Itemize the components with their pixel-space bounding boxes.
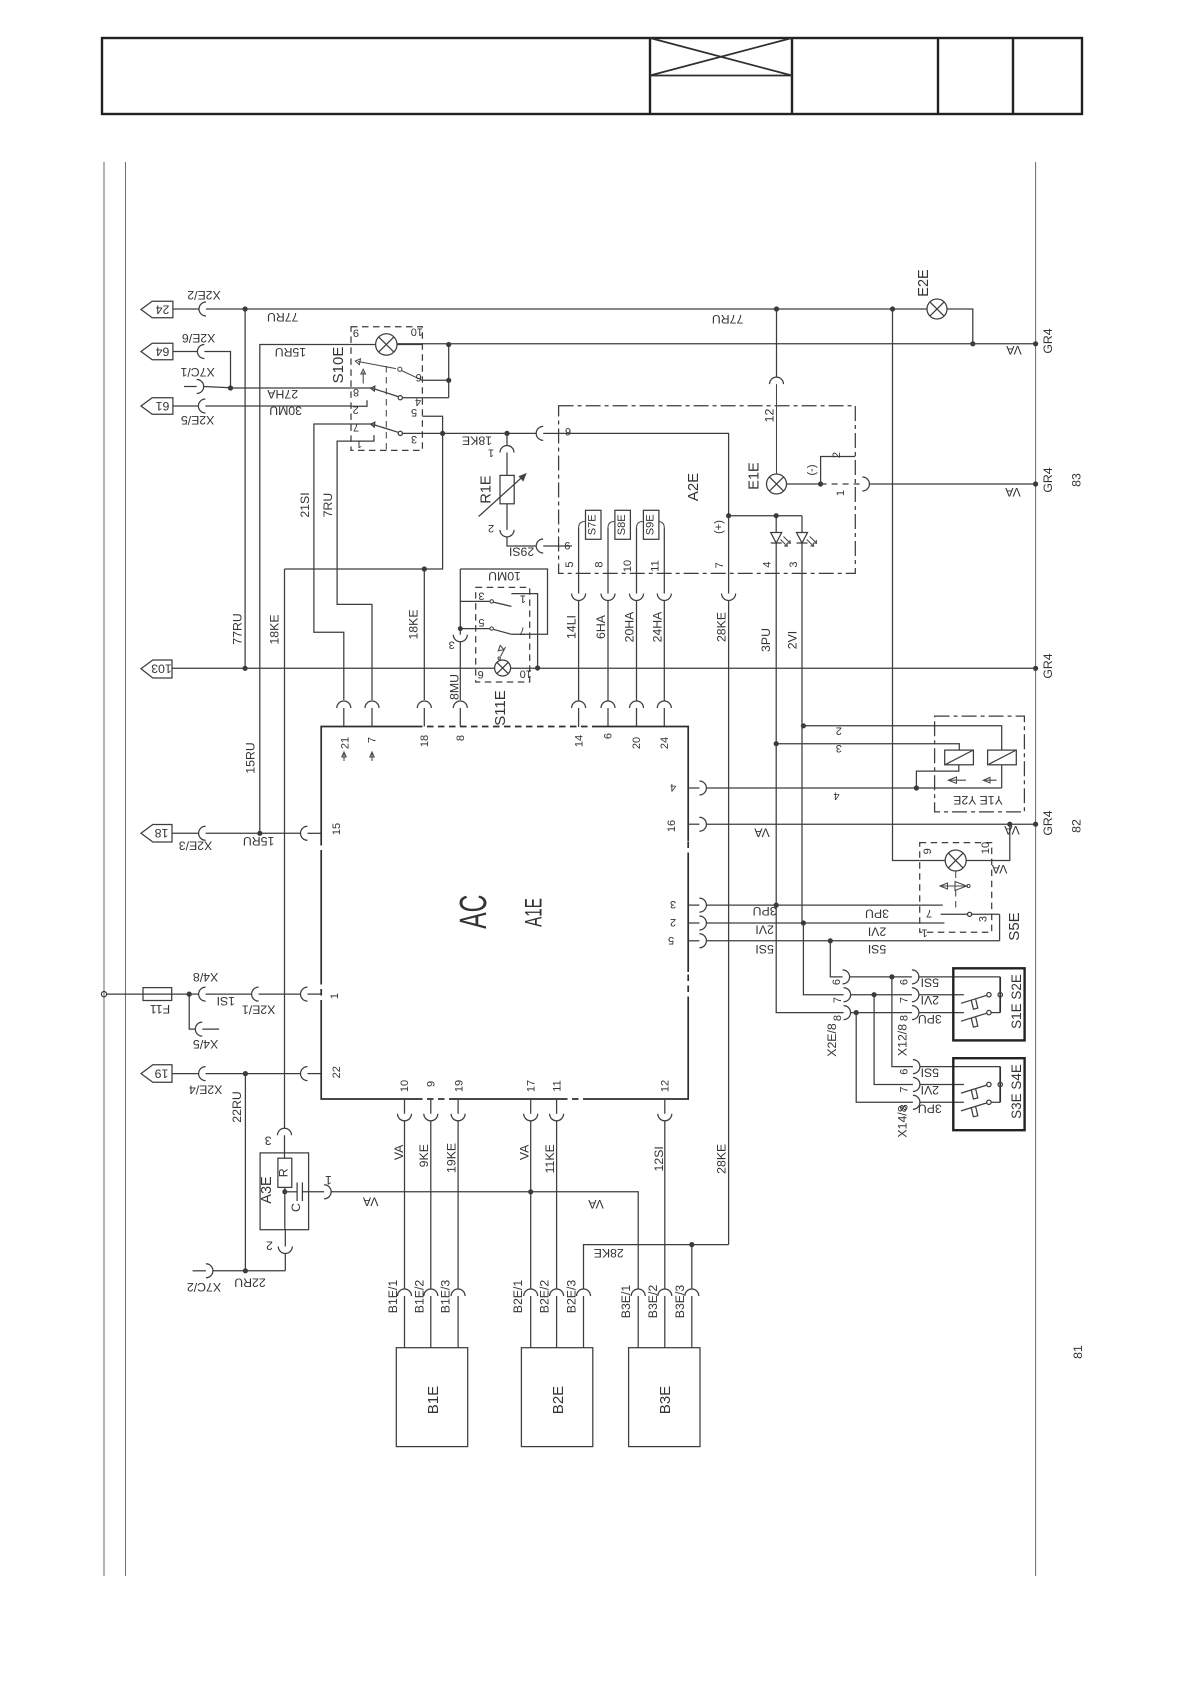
node pin3 3PU junction bbox=[774, 741, 779, 746]
node rail2 end bbox=[1033, 481, 1038, 486]
wire 22RU vertical bbox=[244, 1074, 246, 1271]
svg-text:VA: VA bbox=[991, 862, 1007, 876]
svg-text:2VI: 2VI bbox=[786, 631, 800, 649]
wire Y1E coil bottom bbox=[916, 765, 958, 788]
svg-text:17: 17 bbox=[525, 1080, 537, 1092]
wire A3E pin3 into box bbox=[284, 1135, 286, 1158]
svg-text:3PU: 3PU bbox=[918, 1101, 942, 1115]
wire E1E minus bbox=[787, 483, 821, 485]
svg-text:19: 19 bbox=[453, 1080, 465, 1092]
svg-text:18KE: 18KE bbox=[407, 609, 421, 639]
svg-text:10: 10 bbox=[399, 1080, 411, 1092]
flag 18 bbox=[141, 825, 172, 843]
svg-text:6: 6 bbox=[899, 979, 911, 985]
S10E contact pin8-pin4 bbox=[351, 386, 449, 400]
node rail3 junction bbox=[243, 666, 248, 671]
svg-text:S9E: S9E bbox=[644, 514, 656, 535]
svg-text:B2E/3: B2E/3 bbox=[565, 1280, 579, 1314]
svg-text:GR4: GR4 bbox=[1041, 467, 1055, 492]
svg-text:S1E S2E: S1E S2E bbox=[1009, 974, 1024, 1029]
LED 2 bbox=[797, 516, 817, 574]
wire long vertical from 77RU to S5E bbox=[893, 309, 920, 861]
svg-text:1: 1 bbox=[520, 593, 526, 605]
wire LED feed bbox=[729, 515, 802, 517]
wire A2E pin4 3PU vertical bbox=[776, 573, 843, 1012]
wire rail4 GR4 bbox=[706, 823, 1035, 825]
wire S3E 2VI bbox=[874, 995, 913, 1085]
connector B1E/3 bbox=[451, 1289, 465, 1348]
svg-text:28KE: 28KE bbox=[715, 612, 729, 642]
resistor R1E with pin1 connector bbox=[479, 433, 537, 546]
svg-text:81: 81 bbox=[1071, 1345, 1085, 1359]
thermal switch S7E bbox=[579, 510, 601, 573]
S10E pin6 wire bbox=[422, 379, 448, 381]
svg-text:3: 3 bbox=[670, 898, 676, 910]
svg-text:VA: VA bbox=[753, 826, 769, 840]
svg-text:19KE: 19KE bbox=[445, 1143, 459, 1173]
title block frame bbox=[102, 38, 1082, 114]
node S10E right rail verticals bbox=[448, 345, 450, 398]
svg-text:B2E: B2E bbox=[550, 1386, 567, 1414]
svg-text:3: 3 bbox=[449, 639, 455, 651]
S10E pin2 stub bbox=[351, 400, 367, 406]
connector A1E pin1 bbox=[301, 987, 308, 1001]
wire 18KE left vertical bbox=[284, 569, 286, 1128]
S11E contact blade lower bbox=[490, 627, 511, 634]
svg-text:3: 3 bbox=[411, 433, 417, 445]
node 77RU at E1E bbox=[774, 306, 779, 311]
wire 1SI bbox=[189, 993, 198, 995]
svg-text:B1E/2: B1E/2 bbox=[412, 1280, 426, 1314]
node 2VI rail junction bbox=[801, 920, 806, 925]
A1E pin19 bottom bbox=[451, 1099, 465, 1289]
svg-text:5: 5 bbox=[411, 406, 417, 418]
svg-text:18: 18 bbox=[155, 826, 169, 840]
svg-text:1: 1 bbox=[835, 490, 847, 496]
svg-text:X2E/5: X2E/5 bbox=[181, 413, 215, 427]
connector A1E pin15 bbox=[301, 826, 308, 840]
svg-text:A1E: A1E bbox=[521, 898, 547, 927]
Y2E actuate arrow bbox=[983, 777, 996, 783]
svg-text:2: 2 bbox=[266, 1238, 273, 1252]
A1E pin4 right bbox=[688, 781, 1002, 795]
S11E contact blade upper bbox=[490, 600, 511, 607]
wire VA to B3E1 bbox=[531, 1192, 639, 1289]
svg-text:GR4: GR4 bbox=[1041, 328, 1055, 353]
wire 5SI branch bbox=[830, 941, 842, 977]
connector X2E/3 bbox=[199, 826, 206, 840]
svg-text:103: 103 bbox=[151, 662, 172, 676]
A1E pin8 connector bbox=[453, 701, 467, 727]
svg-text:29SI: 29SI bbox=[509, 545, 534, 559]
svg-text:28KE: 28KE bbox=[594, 1246, 624, 1260]
svg-text:6: 6 bbox=[899, 1069, 911, 1075]
S1E contact lower bbox=[961, 1010, 1000, 1027]
A1E pin11 bottom bbox=[550, 1099, 564, 1289]
wire 7RU bbox=[337, 441, 372, 700]
svg-text:18KE: 18KE bbox=[268, 614, 282, 644]
connector X7C/1 stub bbox=[184, 386, 197, 388]
wire Y1E pin3 bbox=[776, 744, 959, 750]
sensor B1E box bbox=[396, 1348, 467, 1447]
node pin3/pin5/R1E junction bbox=[440, 431, 445, 436]
svg-text:X2E/4: X2E/4 bbox=[189, 1082, 223, 1096]
svg-text:B2E/2: B2E/2 bbox=[538, 1280, 552, 1314]
svg-text:A3E: A3E bbox=[259, 1176, 275, 1204]
wire E2E to rail1 bbox=[947, 309, 973, 344]
connector X2E/5 bbox=[198, 399, 205, 413]
node 3PU to S3E branch bbox=[854, 1010, 859, 1015]
S10E lamp bbox=[351, 334, 422, 355]
svg-text:A2E: A2E bbox=[685, 473, 702, 501]
node X7C/2 junction bbox=[243, 1268, 248, 1273]
S1E contact upper bbox=[961, 993, 1002, 1010]
svg-text:B1E: B1E bbox=[425, 1386, 442, 1414]
svg-text:1: 1 bbox=[921, 927, 927, 939]
node A2E (+) junction bbox=[726, 513, 731, 518]
A2E pin6 internal wire bbox=[559, 433, 729, 573]
svg-text:10: 10 bbox=[622, 560, 634, 572]
svg-text:GR4: GR4 bbox=[1041, 810, 1055, 835]
svg-text:11KE: 11KE bbox=[543, 1144, 557, 1173]
connector X4/5 bbox=[195, 1022, 202, 1036]
svg-text:20: 20 bbox=[631, 737, 643, 749]
wire rail3 GR4 bbox=[245, 667, 495, 669]
node A3E internal bbox=[282, 1189, 287, 1194]
svg-text:27HA: 27HA bbox=[267, 387, 299, 401]
svg-text:7: 7 bbox=[832, 997, 844, 1003]
wire X2E/1 to A1E pin1 bbox=[259, 993, 301, 995]
A1E pin12 bottom bbox=[658, 1099, 672, 1289]
svg-text:F11: F11 bbox=[150, 1002, 170, 1016]
node Y1E to 4 rail bbox=[914, 785, 919, 790]
svg-text:5: 5 bbox=[668, 934, 674, 946]
svg-text:9KE: 9KE bbox=[417, 1144, 431, 1167]
A1E pin21 wire with connector bbox=[337, 701, 351, 727]
svg-text:1: 1 bbox=[329, 993, 341, 999]
wire flag61 to connector bbox=[173, 405, 199, 407]
svg-text:S5E: S5E bbox=[1006, 912, 1023, 940]
svg-text:12: 12 bbox=[763, 409, 777, 423]
svg-text:8MU: 8MU bbox=[448, 674, 462, 700]
S5E actuator symbol bbox=[940, 872, 970, 912]
wire flag64 to connector bbox=[173, 351, 198, 353]
svg-text:X2E/8: X2E/8 bbox=[825, 1023, 839, 1057]
node 18KE corner junction bbox=[422, 566, 427, 571]
S11E lamp actuator bbox=[498, 645, 506, 659]
flag 24 (sheet arrow) bbox=[141, 301, 173, 318]
connector B3E/3 bbox=[685, 1289, 699, 1348]
node S11E pin1 to rail3 bbox=[535, 665, 540, 670]
left page margin lines bbox=[103, 162, 105, 1576]
wire X2E/6 to corner then down bbox=[204, 352, 230, 389]
A1E pin16 right bbox=[688, 817, 706, 831]
wire S3E 5SI bbox=[892, 977, 913, 1067]
node rail3 end bbox=[1033, 666, 1038, 671]
svg-text:X4/5: X4/5 bbox=[193, 1037, 218, 1051]
svg-text:2: 2 bbox=[670, 916, 676, 928]
svg-text:10: 10 bbox=[980, 842, 992, 854]
wire X2E/3 to A1E pin15 bbox=[206, 832, 301, 834]
switch unit S3E S4E box bbox=[953, 1058, 1024, 1130]
svg-text:10: 10 bbox=[411, 326, 423, 338]
svg-text:(+): (+) bbox=[713, 520, 725, 534]
control unit A1E box bbox=[321, 727, 688, 1100]
wire 30MU to S10E pin2 bbox=[205, 405, 351, 407]
svg-text:14: 14 bbox=[573, 735, 585, 747]
A1E pin3 right bbox=[688, 898, 943, 912]
svg-text:8: 8 bbox=[593, 561, 605, 567]
wire Y2E coil bottom bbox=[1001, 765, 1003, 788]
connector B2E/2 bbox=[550, 1289, 564, 1348]
connector B1E/2 bbox=[424, 1289, 438, 1348]
svg-text:3PU: 3PU bbox=[865, 907, 889, 921]
svg-text:14LI: 14LI bbox=[565, 615, 579, 639]
svg-text:9: 9 bbox=[353, 327, 359, 339]
svg-text:77RU: 77RU bbox=[267, 310, 298, 324]
svg-text:S7E: S7E bbox=[587, 514, 599, 535]
wire S5E lamp right to VA bbox=[966, 824, 1010, 860]
switch unit S1E S2E box bbox=[953, 968, 1024, 1040]
Y1E actuate arrow bbox=[948, 777, 966, 783]
svg-text:VA: VA bbox=[362, 1194, 378, 1208]
svg-text:22RU: 22RU bbox=[230, 1091, 244, 1122]
node 22RU tee bbox=[243, 1071, 248, 1076]
svg-text:2: 2 bbox=[353, 403, 359, 415]
wire rail1 GR4 bbox=[397, 343, 1036, 345]
svg-text:6: 6 bbox=[416, 371, 422, 383]
connector B3E/1 bbox=[631, 1289, 645, 1348]
node 77RU junction bbox=[243, 306, 248, 311]
node S11E pins junction bbox=[458, 626, 463, 631]
svg-text:R: R bbox=[277, 1168, 291, 1177]
wire 8MU with connector bbox=[453, 629, 467, 700]
connector A2E pin6 bbox=[536, 426, 543, 440]
coil Y1E bbox=[945, 750, 974, 765]
wire X7C/2 to 22RU node bbox=[213, 1270, 285, 1272]
wire Y2E pin2 bbox=[803, 726, 1001, 750]
svg-text:21: 21 bbox=[340, 737, 352, 749]
sensor B3E box bbox=[629, 1348, 700, 1447]
svg-text:8: 8 bbox=[899, 1015, 911, 1021]
svg-text:6: 6 bbox=[478, 668, 484, 680]
node 3PU rail junction bbox=[774, 903, 779, 908]
svg-text:2: 2 bbox=[831, 452, 843, 458]
svg-text:7RU: 7RU bbox=[321, 493, 335, 518]
node 15RU tee bbox=[257, 831, 262, 836]
svg-text:S8E: S8E bbox=[616, 514, 628, 535]
svg-text:3PU: 3PU bbox=[753, 904, 777, 918]
S10E pin1 stub bbox=[351, 435, 374, 441]
svg-text:1SI: 1SI bbox=[217, 994, 235, 1008]
wire VA from A3E pin1 bbox=[331, 1191, 531, 1193]
svg-text:3: 3 bbox=[478, 590, 484, 602]
wire A3E pin2 drop bbox=[284, 1254, 286, 1271]
wire node down to pin2 bbox=[284, 1192, 286, 1230]
S10E pin5 wire bbox=[422, 416, 442, 433]
svg-text:R1E: R1E bbox=[479, 475, 495, 504]
wire X4/5 branch bbox=[189, 994, 195, 1029]
svg-text:28KE: 28KE bbox=[715, 1144, 729, 1174]
svg-text:77RU: 77RU bbox=[231, 613, 245, 644]
connector X4/8 bbox=[199, 987, 206, 1001]
S11E lamp bbox=[495, 660, 511, 676]
svg-text:11: 11 bbox=[551, 1080, 563, 1091]
svg-text:E2E: E2E bbox=[916, 269, 932, 297]
svg-text:X7C/1: X7C/1 bbox=[180, 365, 214, 379]
wire E1E pin2 stub bbox=[821, 457, 856, 485]
svg-text:18KE: 18KE bbox=[462, 434, 492, 448]
svg-text:1: 1 bbox=[356, 438, 362, 450]
connector A3E pin3 bbox=[278, 1128, 292, 1135]
svg-text:VA: VA bbox=[1005, 343, 1021, 357]
svg-text:61: 61 bbox=[156, 399, 170, 413]
svg-text:2: 2 bbox=[836, 724, 842, 736]
svg-text:10: 10 bbox=[520, 668, 532, 680]
connector X2E/6 bbox=[197, 345, 204, 359]
svg-text:X4/8: X4/8 bbox=[193, 970, 218, 984]
node E1E minus junction bbox=[818, 481, 823, 486]
node VA pin17 junction bbox=[528, 1189, 533, 1194]
svg-text:5SI: 5SI bbox=[921, 975, 939, 989]
node 77RU E2E branch bbox=[890, 306, 895, 311]
wire flag24 to connector bbox=[173, 308, 199, 310]
A2E pin9 stub bbox=[559, 545, 572, 547]
S10E rotary actuator bbox=[355, 359, 422, 451]
svg-text:1: 1 bbox=[488, 446, 494, 458]
connector X7C/2 bbox=[206, 1264, 213, 1278]
A3E box bbox=[260, 1153, 309, 1230]
flag 61 bbox=[141, 398, 173, 415]
S5E lamp bbox=[945, 850, 966, 871]
svg-text:5: 5 bbox=[564, 561, 576, 567]
connector group X2E/8 wire 5SI bbox=[843, 970, 1001, 984]
wire 6HA with connectors bbox=[601, 573, 615, 727]
svg-text:3PU: 3PU bbox=[918, 1012, 942, 1026]
svg-text:77RU: 77RU bbox=[712, 312, 743, 326]
resistor R in A3E bbox=[278, 1158, 292, 1187]
wire X2E/2 to node bbox=[206, 308, 245, 310]
A1E pin18 connector bbox=[417, 701, 431, 727]
wire S5E lamp left bbox=[920, 860, 946, 862]
connector X2E/4 bbox=[199, 1067, 206, 1081]
connector X7C/2 stub bbox=[193, 1270, 206, 1272]
S1E internal vertical bbox=[999, 977, 1001, 1013]
svg-text:15: 15 bbox=[331, 823, 343, 835]
A1E pin17 bottom bbox=[524, 1099, 538, 1289]
node 28KE B3E3 branch bbox=[689, 1242, 694, 1247]
connector B1E/1 bbox=[398, 1289, 412, 1348]
A1E pin2 right bbox=[688, 916, 944, 930]
svg-text:64: 64 bbox=[156, 344, 170, 358]
svg-text:4: 4 bbox=[834, 789, 840, 801]
connector A3E pin2 bbox=[278, 1247, 292, 1254]
S3E internal vertical bbox=[999, 1067, 1001, 1103]
svg-text:3: 3 bbox=[788, 561, 800, 567]
svg-text:24: 24 bbox=[156, 302, 170, 316]
connector group X2E/8 wire 2VI bbox=[844, 988, 964, 1002]
svg-text:X7C/2: X7C/2 bbox=[187, 1280, 221, 1294]
svg-text:11: 11 bbox=[650, 560, 662, 571]
svg-text:B1E/1: B1E/1 bbox=[386, 1280, 400, 1314]
node rail4 end bbox=[1033, 822, 1038, 827]
svg-text:VA: VA bbox=[518, 1144, 532, 1160]
svg-text:20HA: 20HA bbox=[623, 611, 637, 643]
wire S5E pin3 down to 5SI bbox=[999, 914, 1001, 941]
title block divider columns bbox=[649, 38, 651, 114]
svg-text:S3E S4E: S3E S4E bbox=[1009, 1064, 1024, 1119]
wire E1E to boundary dashed bbox=[821, 483, 863, 485]
svg-text:22RU: 22RU bbox=[234, 1275, 265, 1289]
svg-text:2VI: 2VI bbox=[755, 923, 773, 937]
svg-text:8: 8 bbox=[899, 1104, 911, 1110]
svg-text:2VI: 2VI bbox=[868, 924, 886, 938]
svg-text:Y1E Y2E: Y1E Y2E bbox=[953, 793, 1003, 807]
svg-text:15RU: 15RU bbox=[243, 834, 274, 848]
svg-text:7: 7 bbox=[367, 737, 379, 743]
node rail1 end bbox=[1033, 341, 1038, 346]
S10E contact pin7-pin3 bbox=[351, 422, 443, 435]
A1E pin5 right bbox=[688, 934, 999, 948]
svg-text:B1E/3: B1E/3 bbox=[439, 1280, 453, 1314]
svg-text:B2E/1: B2E/1 bbox=[511, 1280, 525, 1314]
svg-text:4: 4 bbox=[762, 561, 774, 567]
S11E pin1 wire bbox=[511, 594, 537, 668]
node R1E top junction bbox=[504, 431, 509, 436]
svg-text:5SI: 5SI bbox=[921, 1066, 939, 1080]
svg-text:7: 7 bbox=[714, 562, 726, 568]
connector A3E pin1 bbox=[324, 1185, 331, 1199]
connector group X2E/8 wire 3PU bbox=[844, 1006, 964, 1020]
svg-text:7: 7 bbox=[353, 421, 359, 433]
wire 10MU bbox=[460, 569, 547, 634]
svg-text:S10E: S10E bbox=[330, 347, 347, 384]
connector X2E/1 bbox=[252, 987, 259, 1001]
connector B2E/3 bbox=[577, 1289, 591, 1348]
A1E pin9 bottom bbox=[424, 1099, 438, 1289]
coil Y2E bbox=[988, 750, 1017, 765]
wire flag103 to rail3 bbox=[172, 667, 245, 669]
svg-text:B3E: B3E bbox=[657, 1386, 674, 1414]
svg-text:VA: VA bbox=[1003, 823, 1019, 837]
thermal switch S8E bbox=[608, 510, 630, 573]
svg-text:X2E/2: X2E/2 bbox=[187, 288, 221, 302]
svg-text:2VI: 2VI bbox=[921, 1083, 939, 1097]
wire 24HA with connectors bbox=[657, 573, 671, 727]
switch S11E box bbox=[476, 587, 530, 682]
node 5SI to S3E branch bbox=[889, 974, 894, 979]
svg-text:9: 9 bbox=[425, 1081, 437, 1087]
node 5SI branch junction bbox=[828, 938, 833, 943]
wire 15RU vertical bbox=[260, 345, 351, 834]
S11E pin3 wire bbox=[459, 569, 461, 629]
svg-text:16: 16 bbox=[666, 820, 678, 832]
wire 20HA with connectors bbox=[630, 573, 644, 727]
svg-text:19: 19 bbox=[155, 1066, 169, 1080]
switch S10E box bbox=[351, 327, 422, 451]
svg-text:12SI: 12SI bbox=[652, 1146, 666, 1171]
connector A2E pin9 bbox=[536, 539, 543, 553]
right page margin line bbox=[1035, 162, 1037, 1576]
svg-text:15RU: 15RU bbox=[244, 742, 258, 773]
svg-text:10MU: 10MU bbox=[488, 569, 521, 583]
node F11 out junction bbox=[187, 992, 192, 997]
svg-text:VA: VA bbox=[1004, 485, 1020, 499]
wire rail2 GR4 bbox=[869, 483, 1035, 485]
svg-text:X2E/3: X2E/3 bbox=[179, 838, 213, 852]
wire flag18 to connector bbox=[172, 832, 199, 834]
S3E contact upper bbox=[961, 1082, 1002, 1099]
